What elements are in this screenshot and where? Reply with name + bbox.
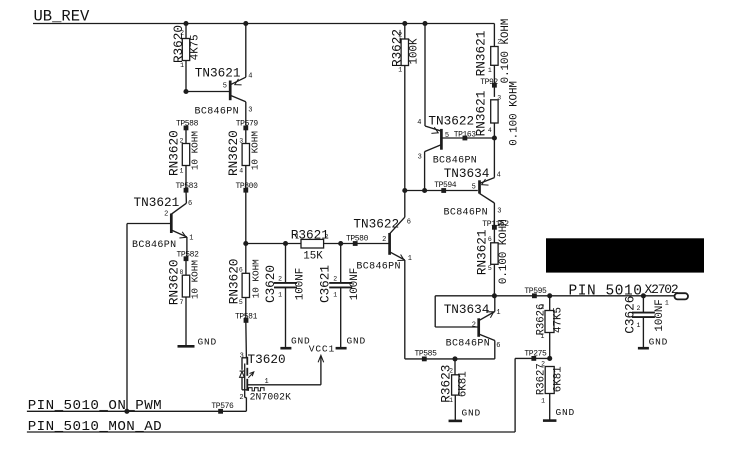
resistor RN3621 pins 5-6, 0.100 KOHM — [475, 219, 511, 284]
svg-text:GND: GND — [649, 337, 669, 348]
wire base riser to PIN_5010_ON_PWM — [126, 224, 128, 412]
svg-text:3: 3 — [418, 154, 422, 162]
svg-text:BC846PN: BC846PN — [446, 339, 490, 350]
resistor R3620 — [171, 24, 201, 93]
svg-text:0.100 KOHM: 0.100 KOHM — [508, 81, 520, 146]
svg-text:4: 4 — [497, 171, 501, 179]
svg-text:1: 1 — [636, 322, 640, 329]
resistor RN3621 pins 1-2, 0.100 KOHM — [474, 19, 513, 97]
node junction mid rail at RN3620 5-6 — [243, 241, 248, 246]
svg-text:GND: GND — [347, 336, 367, 347]
svg-text:1: 1 — [540, 333, 544, 340]
emitter lead down-right — [390, 252, 405, 260]
emitter lead up to rail — [230, 77, 246, 85]
resistor R3622 100K — [390, 24, 421, 191]
wire PIN_5010_MON_AD — [27, 431, 515, 433]
resistor R3626 47K5 — [535, 296, 564, 359]
svg-text:1: 1 — [449, 397, 453, 404]
svg-text:2: 2 — [540, 304, 544, 311]
base bar TN3622 upper — [440, 129, 443, 150]
ground symbol at C3621 — [336, 347, 347, 350]
svg-text:TN3634: TN3634 — [444, 166, 490, 181]
emitter arrow TN3622 upper — [431, 127, 438, 133]
svg-text:6: 6 — [239, 267, 243, 274]
transistor TN3622 (upper) BC846PN — [417, 24, 477, 191]
svg-text:C3621: C3621 — [318, 265, 333, 303]
svg-text:6: 6 — [188, 200, 192, 208]
svg-text:1: 1 — [408, 255, 412, 263]
node junction PIN_5010 at R3626 — [547, 293, 552, 298]
svg-text:6K81: 6K81 — [553, 366, 565, 392]
svg-text:1: 1 — [179, 167, 183, 174]
svg-text:2: 2 — [382, 236, 386, 244]
svg-text:T3620: T3620 — [248, 352, 286, 367]
svg-text:3: 3 — [248, 106, 252, 114]
svg-text:3: 3 — [239, 137, 243, 144]
svg-text:0.100 KOHM: 0.100 KOHM — [498, 219, 510, 284]
resistor R3623 6K81 — [439, 359, 470, 421]
emitter lead up to rail — [494, 296, 496, 312]
svg-text:6K81: 6K81 — [457, 371, 469, 397]
svg-text:2: 2 — [636, 305, 640, 312]
redacted black box — [546, 238, 704, 272]
resistor RN3620 pins 3-4, 10 KOHM — [226, 128, 261, 190]
base wire TN3634 upper — [405, 190, 478, 192]
svg-text:X2702: X2702 — [645, 282, 678, 297]
base bar TN3621 lower — [170, 214, 173, 234]
resistor R3627 6K81 — [535, 360, 564, 420]
svg-text:1: 1 — [295, 233, 299, 240]
svg-text:6: 6 — [496, 342, 500, 350]
collector lead down-left — [425, 145, 442, 152]
wire PIN_5010_ON_PWM — [27, 410, 247, 412]
node junction R3623 top — [452, 356, 457, 361]
emitter arrow TN3621 lower — [179, 232, 186, 238]
svg-text:100NF: 100NF — [294, 268, 306, 300]
node junction top rail at TN3622 riser — [422, 21, 427, 26]
emitter arrow TN3622 lower — [397, 255, 404, 261]
svg-text:1: 1 — [278, 292, 282, 299]
resistor R3621 15K — [291, 227, 329, 262]
channel segments — [246, 357, 248, 365]
svg-text:1: 1 — [180, 62, 184, 69]
collector lead from R3622 node — [404, 191, 406, 218]
wire UB_REV corner down to RN3621 pin2 — [493, 24, 495, 47]
svg-text:1: 1 — [333, 292, 337, 299]
wire PIN_5010 rail — [435, 295, 674, 297]
svg-text:2: 2 — [541, 360, 545, 367]
node junction base wire at TN3622 collector — [422, 188, 427, 193]
svg-text:RN3620: RN3620 — [227, 259, 242, 305]
svg-text:2: 2 — [333, 275, 337, 282]
node junction C3620 top — [283, 241, 288, 246]
base bar TN3634 upper — [478, 180, 481, 193]
svg-text:C3620: C3620 — [263, 265, 278, 303]
svg-text:2: 2 — [164, 211, 168, 219]
svg-text:1: 1 — [541, 398, 545, 405]
node junction C3621 top — [338, 241, 343, 246]
svg-text:TN3634: TN3634 — [444, 302, 490, 317]
source lead to VCC1 — [247, 384, 321, 386]
bulk arrow — [248, 372, 253, 378]
base wire loop left — [434, 296, 436, 327]
body diode bottom tap — [242, 389, 247, 391]
svg-text:5: 5 — [223, 82, 227, 90]
svg-text:47K5: 47K5 — [553, 307, 565, 333]
svg-text:R3627: R3627 — [535, 363, 547, 395]
svg-text:2: 2 — [398, 31, 402, 38]
drain tap — [242, 357, 247, 359]
svg-text:2: 2 — [180, 30, 184, 37]
svg-text:1: 1 — [488, 67, 492, 74]
svg-text:BC846PN: BC846PN — [444, 207, 488, 218]
svg-text:BC846PN: BC846PN — [356, 261, 400, 272]
svg-text:100NF: 100NF — [654, 299, 666, 331]
svg-text:TN3622: TN3622 — [353, 217, 399, 232]
svg-text:7: 7 — [179, 299, 183, 306]
ground symbol at R3623 — [449, 420, 463, 423]
svg-text:4: 4 — [248, 73, 252, 81]
node junction TP275 at R3627 — [547, 356, 552, 361]
resistor RN3621 pins 3-4, 0.100 KOHM — [474, 81, 521, 146]
node junction base TN3621 upper — [183, 89, 188, 94]
body diode branch — [241, 358, 243, 370]
svg-text:RN3621: RN3621 — [474, 31, 489, 77]
wire UB_REV top rail — [33, 23, 494, 25]
transistor TN3634 (lower) BC846PN — [435, 296, 500, 359]
svg-text:4: 4 — [417, 119, 421, 127]
svg-text:2N7002K: 2N7002K — [250, 392, 291, 403]
svg-text:6: 6 — [407, 219, 411, 227]
svg-text:2: 2 — [497, 38, 501, 45]
svg-text:VCC1: VCC1 — [309, 344, 335, 355]
collector lead down — [230, 95, 246, 102]
transistor TN3634 (upper) BC846PN — [402, 138, 501, 296]
svg-text:1: 1 — [265, 378, 269, 386]
emitter lead into bar — [425, 126, 442, 131]
gate lead down to PWM — [244, 393, 246, 398]
ground symbol at R3627 — [543, 419, 557, 422]
resistor RN3620 pins 5-6, 10 KOHM — [227, 259, 262, 321]
gate bar — [244, 364, 246, 393]
node junction PIN_5010 at RN3621 — [492, 293, 497, 298]
node junction base wire at R3622 column — [402, 188, 407, 193]
node junction top rail at R3620 — [183, 21, 188, 26]
wire TP800 down to mid rail — [245, 190, 247, 243]
drain wire — [245, 320, 248, 357]
svg-text:3: 3 — [497, 208, 501, 216]
svg-text:5: 5 — [445, 132, 449, 140]
resistor RN3620 pins 1-2, 10 KOHM — [166, 128, 200, 190]
ground symbol at RN3620 — [178, 345, 195, 348]
svg-text:15K: 15K — [303, 250, 323, 262]
wire RN3620 5-6 column — [245, 244, 247, 274]
svg-text:GND: GND — [556, 407, 576, 418]
wire MON_AD riser top segment — [515, 357, 550, 359]
svg-text:4: 4 — [488, 127, 492, 134]
transistor TN3622 (lower) BC846PN — [353, 191, 412, 359]
emitter arrow TN3634 lower — [487, 312, 494, 318]
svg-text:1: 1 — [496, 309, 500, 317]
emitter lead into bar — [480, 178, 495, 184]
svg-text:1: 1 — [189, 235, 193, 243]
svg-text:5: 5 — [239, 299, 243, 306]
svg-text:BC846PN: BC846PN — [132, 240, 176, 251]
emitter arrow TN3621 upper — [235, 79, 242, 85]
node junction PIN_5010 at C3626 — [641, 293, 646, 298]
svg-text:10 KOHM: 10 KOHM — [251, 259, 262, 298]
svg-text:TN3622: TN3622 — [428, 114, 474, 129]
mosfet T3620 2N7002K — [239, 320, 321, 411]
svg-text:2: 2 — [239, 394, 243, 402]
svg-text:R3622: R3622 — [390, 29, 405, 67]
svg-text:2: 2 — [325, 233, 329, 240]
svg-text:2: 2 — [449, 368, 453, 375]
power symbol VCC1 — [309, 344, 335, 385]
svg-text:10 KOHM: 10 KOHM — [190, 131, 201, 170]
source bumps — [249, 388, 265, 391]
base bar TN3634 lower — [477, 318, 480, 337]
base bar TN3622 lower — [388, 233, 391, 255]
ground symbol at C3620 — [280, 347, 291, 350]
svg-text:UB_REV: UB_REV — [34, 8, 91, 26]
wire TN3622 base to RN3621 column — [442, 137, 495, 139]
svg-text:C3626: C3626 — [622, 296, 637, 334]
wire mid rail right segment — [324, 243, 390, 245]
svg-text:RN3621: RN3621 — [474, 91, 489, 137]
transistor TN3621 (lower) BC846PN — [127, 190, 194, 259]
base bar TN3621 upper — [229, 81, 232, 101]
ground symbol at C3626 — [638, 347, 649, 350]
base wire to riser — [127, 223, 170, 225]
collector lead down-right — [480, 193, 495, 203]
svg-text:8: 8 — [179, 269, 183, 276]
emitter arrow TN3634 upper — [482, 179, 489, 185]
wire TP585 rail — [405, 358, 495, 360]
emitter lead down-right — [171, 230, 187, 237]
svg-text:2: 2 — [278, 275, 282, 282]
svg-text:2: 2 — [179, 137, 183, 144]
svg-text:TN3621: TN3621 — [195, 66, 241, 81]
wire mid rail left segment — [246, 243, 301, 245]
svg-text:1: 1 — [398, 67, 402, 74]
svg-text:BC846PN: BC846PN — [195, 106, 239, 117]
svg-text:3: 3 — [497, 95, 501, 102]
svg-text:100NF: 100NF — [349, 268, 361, 300]
svg-text:0.100 KOHM: 0.100 KOHM — [500, 19, 512, 84]
svg-text:4: 4 — [239, 167, 243, 174]
svg-text:GND: GND — [198, 336, 218, 347]
svg-text:TN3621: TN3621 — [134, 195, 180, 210]
svg-text:GND: GND — [291, 336, 311, 347]
node junction top rail at TN3621 emitter — [243, 21, 248, 26]
svg-text:GND: GND — [462, 407, 482, 418]
svg-text:6: 6 — [488, 236, 492, 243]
capacitor C3621 100NF — [318, 244, 361, 349]
svg-text:5: 5 — [488, 265, 492, 272]
resistor RN3620 pins 7-8, 10 KOHM — [166, 259, 200, 347]
collector lead down-right — [479, 334, 495, 341]
svg-text:BC846PN: BC846PN — [433, 155, 477, 166]
node junction top rail at R3622 — [402, 21, 407, 26]
svg-text:2: 2 — [472, 321, 476, 329]
svg-text:4K75: 4K75 — [189, 34, 201, 60]
svg-text:10 KOHM: 10 KOHM — [250, 131, 261, 170]
wire MON_AD riser — [514, 358, 516, 432]
wire from RN3621 node down — [493, 138, 495, 178]
svg-text:10 KOHM: 10 KOHM — [190, 260, 201, 299]
transistor TN3621 (upper) BC846PN — [183, 24, 252, 126]
base wire from R3620 node — [186, 91, 229, 93]
capacitor C3620 100NF — [263, 244, 306, 349]
capacitor C3626 100NF — [622, 296, 666, 349]
connector X2702 — [645, 282, 689, 306]
svg-text:100K: 100K — [408, 38, 420, 64]
node junction RN3621 column at base wire — [492, 135, 497, 140]
wire riser from top rail — [424, 24, 426, 127]
collector lead from TP583 — [185, 190, 187, 203]
node junction PWM at TN3621 base riser — [124, 409, 129, 414]
